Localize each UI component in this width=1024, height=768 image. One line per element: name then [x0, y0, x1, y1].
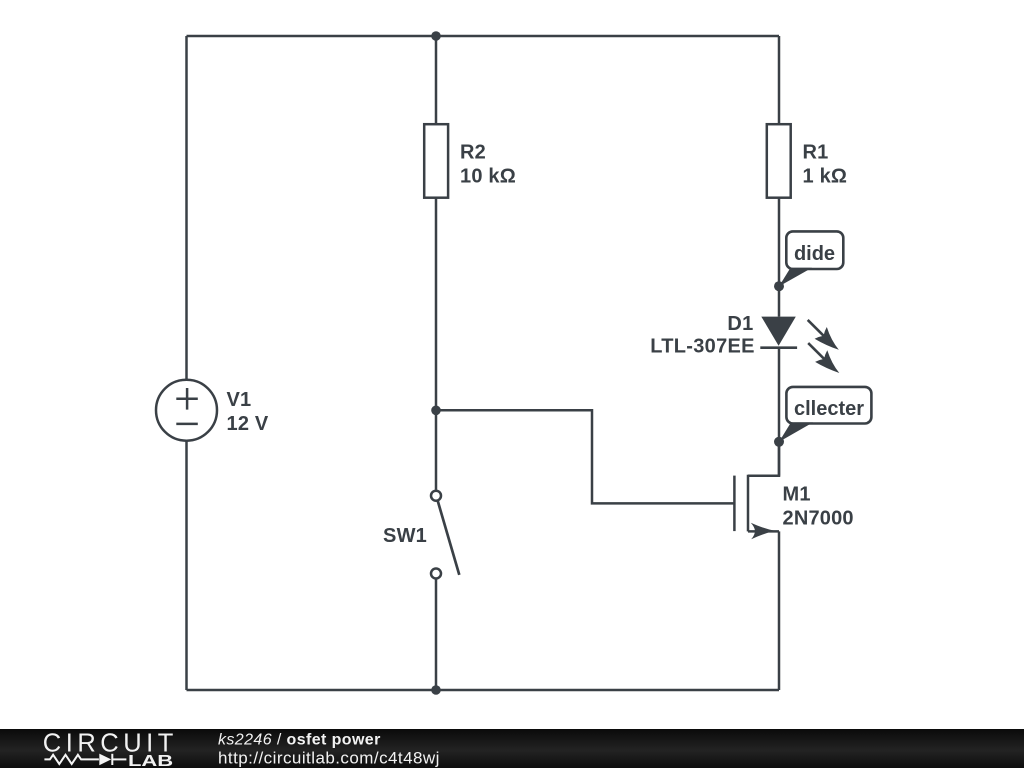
svg-text:10 kΩ: 10 kΩ — [460, 166, 516, 188]
wire switch bottom lead — [435, 580, 438, 691]
voltage source V1 — [156, 380, 217, 441]
wire left rail lower — [185, 442, 188, 691]
transistor M1 — [734, 442, 779, 531]
svg-text:R1: R1 — [803, 142, 829, 164]
svg-text:http://circuitlab.com/c4t48wj: http://circuitlab.com/c4t48wj — [218, 748, 440, 767]
node anode (dide anchor) — [774, 281, 784, 291]
svg-text:LTL-307EE: LTL-307EE — [650, 336, 755, 358]
label R2 10 kΩ — [460, 142, 516, 188]
wire LED cathode to drain — [778, 348, 781, 476]
wire R2 bottom lead to switch — [435, 198, 438, 490]
wire R1 top lead — [778, 36, 781, 124]
svg-text:V1: V1 — [227, 389, 252, 411]
svg-text:R2: R2 — [460, 142, 486, 164]
wire R1 bottom lead to LED — [778, 198, 781, 317]
svg-text:LAB: LAB — [128, 753, 173, 768]
svg-text:M1: M1 — [783, 483, 811, 505]
label V1 12 V — [227, 389, 269, 435]
resistor R1 — [767, 124, 791, 198]
node junction top — [431, 31, 441, 41]
wire top rail — [187, 35, 780, 38]
svg-text:12 V: 12 V — [227, 413, 269, 435]
node junction bottom — [431, 685, 441, 695]
svg-text:dide: dide — [794, 243, 835, 265]
CircuitLab logo — [43, 730, 174, 768]
svg-text:D1: D1 — [727, 313, 753, 335]
svg-text:cllecter: cllecter — [794, 398, 864, 420]
footer bar — [0, 729, 1024, 768]
label D1 LTL-307EE — [650, 313, 755, 358]
resistor R2 — [424, 124, 448, 198]
svg-text:SW1: SW1 — [383, 525, 427, 547]
LED D1 — [760, 317, 839, 373]
wire bottom rail — [187, 689, 780, 692]
annotation callout cllecter — [779, 387, 871, 442]
svg-text:2N7000: 2N7000 — [783, 507, 854, 529]
label M1 2N7000 — [783, 483, 854, 529]
label R1 1 kΩ — [803, 142, 848, 188]
node collector (cllecter anchor) — [774, 437, 784, 447]
svg-text:1 kΩ: 1 kΩ — [803, 166, 848, 188]
svg-text:ks2246 / osfet power: ks2246 / osfet power — [218, 731, 381, 748]
wire source lead down — [778, 531, 781, 690]
annotation callout dide — [779, 231, 843, 286]
wire gate net — [436, 410, 734, 503]
wire R2 top lead — [435, 36, 438, 124]
wire left rail upper — [185, 36, 188, 379]
node junction mid — [431, 406, 441, 416]
switch SW1 — [431, 491, 459, 579]
